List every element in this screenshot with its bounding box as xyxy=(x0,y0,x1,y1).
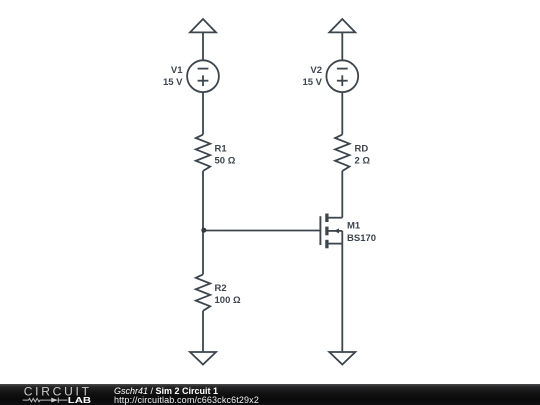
svg-text:V2: V2 xyxy=(310,65,322,76)
wire node A to M1 gate xyxy=(203,230,320,232)
wire terminal TOP1 to V1 xyxy=(202,32,204,60)
wire R1 to node A xyxy=(202,171,204,231)
resistor RD xyxy=(335,135,349,171)
wire RD to M1 drain xyxy=(341,171,343,218)
voltage source V2 xyxy=(326,60,358,92)
wire terminal TOP2 to V2 xyxy=(341,32,343,60)
footer bar xyxy=(0,384,540,405)
svg-text:R2: R2 xyxy=(215,283,227,294)
wire V2 to RD xyxy=(341,92,343,135)
node A (junction dot) xyxy=(201,228,206,233)
svg-text:R1: R1 xyxy=(215,143,228,154)
CircuitLab logo xyxy=(0,384,100,405)
wire R2 to ground xyxy=(202,311,204,352)
svg-text:V1: V1 xyxy=(171,65,183,76)
ground GND2 xyxy=(329,352,355,365)
terminal TOP2 (right supply terminal triangle) xyxy=(329,19,355,32)
ground GND1 xyxy=(190,352,216,365)
resistor R2 xyxy=(196,274,210,310)
svg-text:RD: RD xyxy=(355,143,369,154)
title text xyxy=(113,383,115,385)
wire M1 source to ground xyxy=(341,244,343,352)
wire node A to R2 xyxy=(202,231,204,275)
svg-text:2 Ω: 2 Ω xyxy=(355,156,371,167)
wire V1 to R1 xyxy=(202,92,204,135)
svg-text:LAB: LAB xyxy=(68,396,92,405)
svg-text:15 V: 15 V xyxy=(163,77,183,88)
voltage source V1 xyxy=(187,60,219,92)
transistor M1 xyxy=(320,214,342,249)
svg-text:BS170: BS170 xyxy=(347,233,376,244)
terminal TOP1 (left supply terminal triangle) xyxy=(190,19,216,32)
svg-text:100 Ω: 100 Ω xyxy=(215,295,241,306)
resistor R1 xyxy=(196,135,210,171)
svg-text:M1: M1 xyxy=(347,221,361,232)
svg-text:15 V: 15 V xyxy=(302,77,322,88)
svg-text:50 Ω: 50 Ω xyxy=(215,156,236,167)
